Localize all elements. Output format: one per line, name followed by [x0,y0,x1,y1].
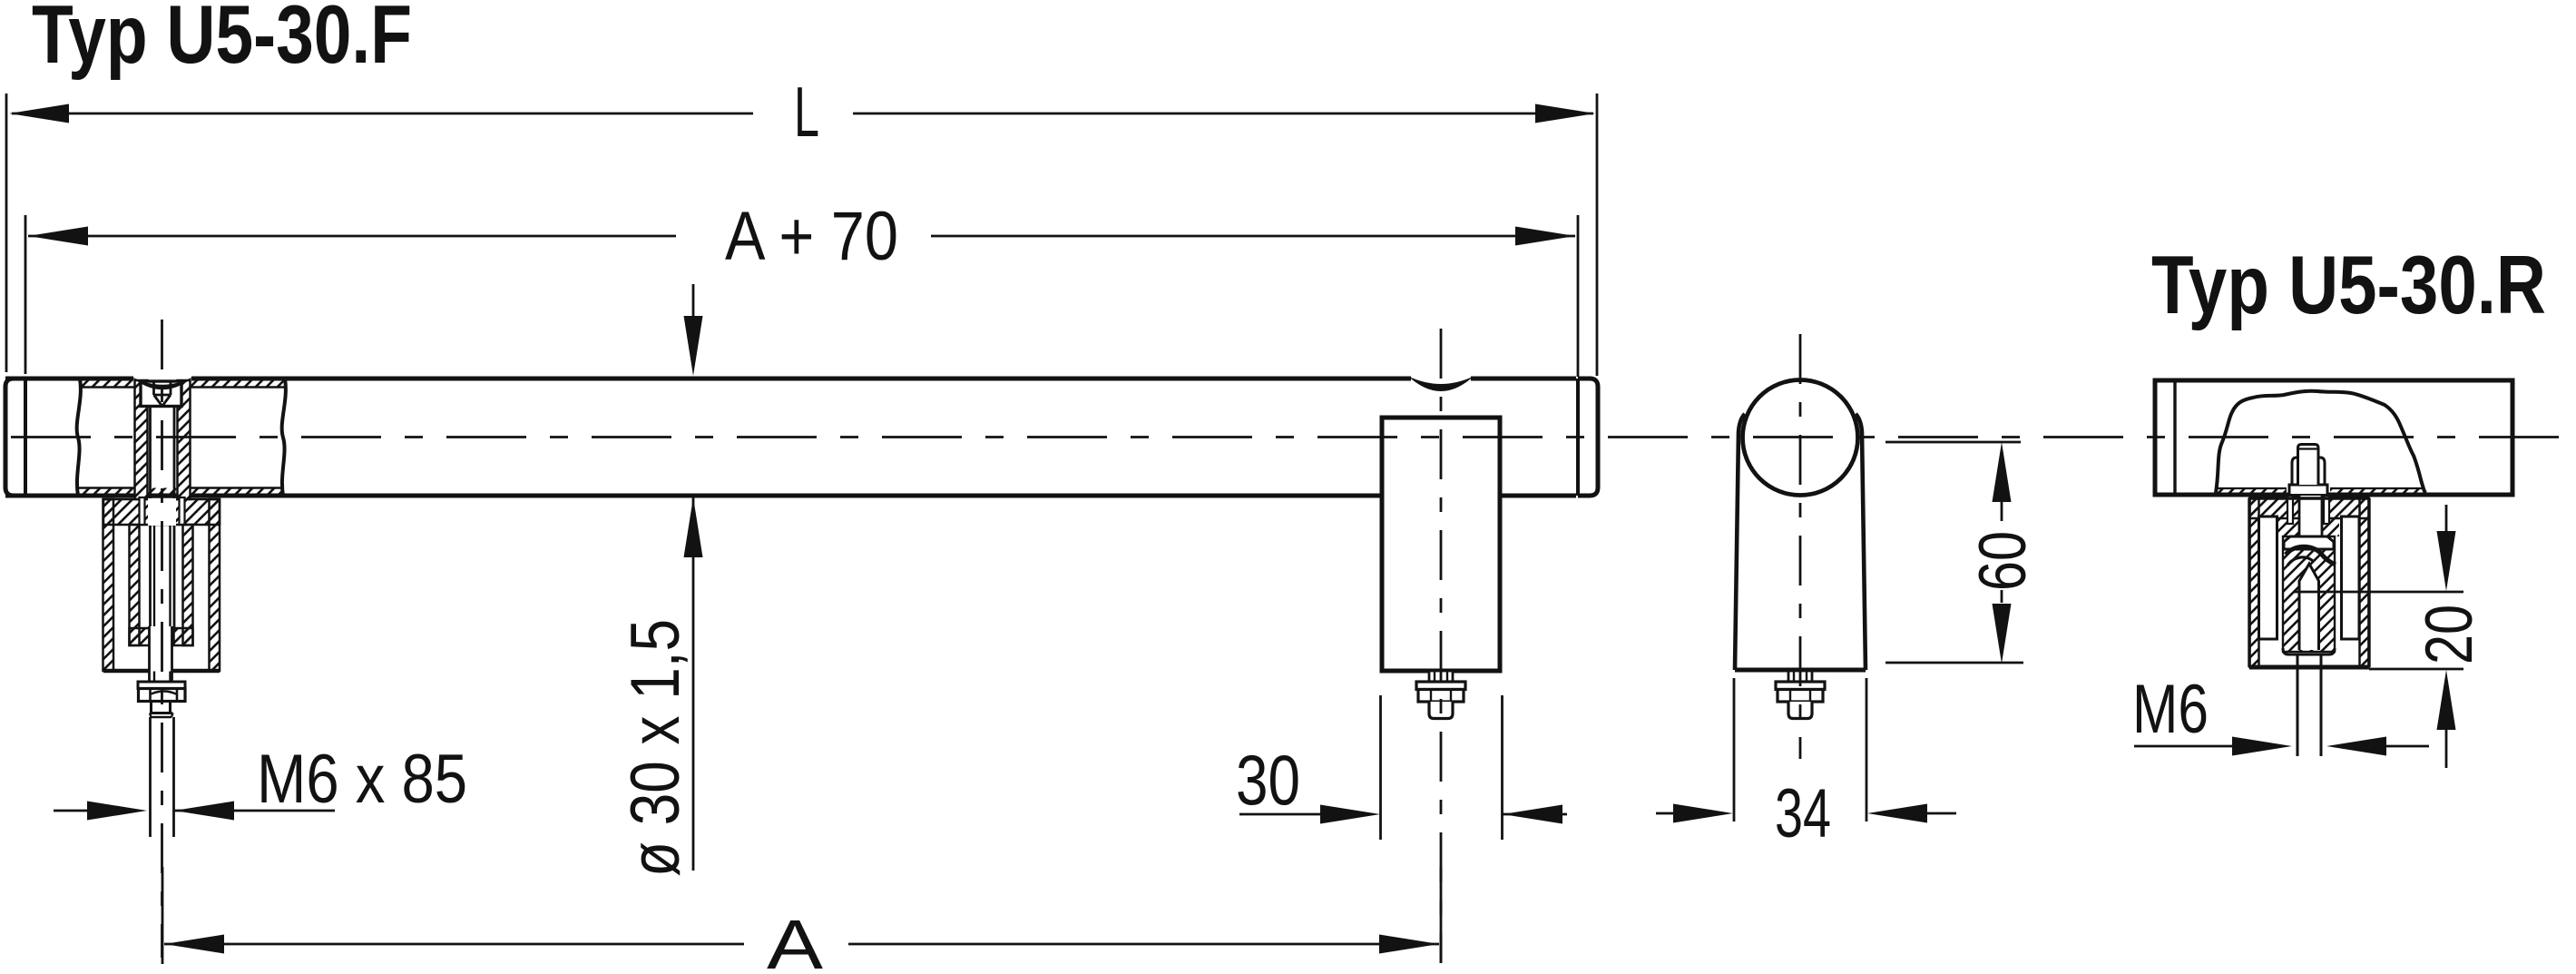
tube inner wall line top [79,386,284,389]
dim M6x85 lines [54,810,335,812]
arrow M6 left [2326,737,2386,756]
arrow dia30 up [684,497,703,557]
dim A+70 ext line right [1577,215,1580,377]
pin slot left [2287,496,2293,524]
arrow A+70 right [1515,227,1575,246]
dim A line [164,943,1439,946]
post outer wall right hatched [2360,498,2369,667]
dim dia30 leader top [692,284,695,320]
stud rod inside tube [2298,445,2319,486]
anchor sleeve left (side view) [2259,517,2277,639]
threaded stud point and rod inside bushing [2299,564,2319,650]
expander sleeve left hatched [130,525,140,645]
tube bottom edge [5,494,1576,498]
post side bottom edge [1735,668,1866,673]
arrow 60 up [1993,442,2012,502]
dim A+70 ext line left [24,215,27,374]
post side view left edge with saddle tip [1735,414,1745,670]
M6 stud below post [2297,654,2321,756]
R tube left end line [2173,380,2176,495]
dim M6 lines [2134,745,2429,748]
stud chamfer band [150,713,173,718]
tube wall hatch strip bottom [79,488,284,496]
bushing rounded bottom [2283,648,2335,654]
break crescent at screw [131,377,194,390]
screw channel white [148,498,176,526]
plug pin slot left [140,497,145,525]
post top band hatched [2249,498,2369,518]
screw shank lines [151,407,175,629]
svg-text:L: L [794,72,819,152]
tube wall hatch in section left [2218,488,2287,495]
arrow dia30 down [684,316,703,376]
arrow 30 right [1503,805,1562,824]
washer [138,682,185,689]
hex nut [139,689,186,702]
support post front view [1382,418,1500,671]
dim 20 line stubs [2445,505,2448,768]
screw M6 head [141,381,181,407]
dim 34 lines [1656,812,1956,815]
stud washer flange [2289,485,2327,496]
thread swirl [2286,546,2336,565]
plug pin slot right [180,497,185,525]
R tube body [2155,380,2512,495]
plug left hatched wall [135,380,148,499]
svg-text:ø 30 x 1,5: ø 30 x 1,5 [617,619,694,877]
tube inner wall line bottom [79,487,284,489]
centerline middle post [1440,329,1443,963]
fixing post cross-section (F) [103,497,220,837]
svg-text:A + 70: A + 70 [725,198,898,275]
dim 60 ext lines [1885,442,2023,663]
arrow 34 left [1673,804,1733,823]
arrow M6 right [2232,737,2292,756]
hex nut [1418,690,1464,703]
arrow A left [164,935,224,954]
stud end [1788,702,1812,719]
R fixing post cross-section [2249,496,2369,756]
pin slot right [2324,496,2329,524]
svg-text:M6: M6 [2132,671,2209,748]
dim L line [12,113,1593,115]
post outer wall left hatched [2250,498,2259,667]
arrow 34 right [1867,804,1927,823]
dim 20 ext lines [2295,592,2464,669]
arrow 60 down [1993,604,2012,664]
arrow M6x85 right [87,802,147,821]
post head band hatched [103,499,220,525]
threaded rod M6 [151,717,174,837]
arrow 20 up [2437,670,2456,730]
post outer wall right hatched [210,499,220,671]
bushing top zone hatched [2278,518,2339,536]
stud end below nut [152,702,171,713]
plug right hatched wall [178,380,191,499]
tube wall hatch in section right [2330,488,2424,495]
stud threaded collar [1429,671,1453,682]
bushing hex top [2284,536,2334,549]
arrow 30 left [1320,805,1380,824]
dim A+70 line [28,235,1575,238]
tube break wavy line left [77,379,81,496]
post outer outline [2249,498,2369,667]
svg-text:Typ U5-30.F: Typ U5-30.F [32,0,412,81]
bushing body hatched [2283,536,2335,652]
svg-text:M6 x 85: M6 x 85 [257,741,467,818]
tube right end cap [1578,379,1598,496]
tube cross-section circle [1743,380,1858,496]
expander sleeve bottom right hatched [174,628,193,645]
dim L ext line left [5,93,8,372]
post side view right edge with saddle tip [1856,414,1866,670]
tube left end cap [5,379,25,496]
dim 30 ext lines [1381,695,1503,840]
tube top edge [5,377,1576,381]
threaded rod through cup [149,626,172,681]
svg-text:20: 20 [2413,605,2486,664]
stud end [1429,702,1453,719]
stud thread lines [154,672,171,683]
arrow M6x85 left [174,802,234,821]
anchor sleeve right (side view) [2342,517,2360,639]
svg-text:Typ U5-30.R: Typ U5-30.R [2151,240,2546,331]
arrow A right [1379,935,1439,954]
arrow L right [1535,104,1595,123]
tube break wavy line right [282,379,286,496]
break crescent at post [1408,377,1474,392]
dim dia30 leader bottom [692,497,695,871]
post bottom edge [103,669,220,674]
main horizontal centerline [11,436,2576,438]
post bottom edge [2249,665,2369,670]
centerline left fixing [161,320,163,958]
dim A ext left [162,867,164,964]
svg-text:34: 34 [1775,775,1831,852]
washer [1776,682,1825,690]
arrow 20 down [2437,531,2456,591]
dim L ext line right [1596,93,1599,376]
expander sleeve right hatched [183,525,193,645]
washer [1416,682,1465,690]
dim 34 ext lines [1734,678,1866,822]
dim 60 line stubs [2001,502,2003,603]
threaded plug cross-section in tube [131,377,194,629]
arrow L left [9,104,69,123]
stud hex collar [2292,457,2325,486]
handle tube body [5,377,1598,497]
expander sleeve bottom left hatched [130,628,151,645]
post outer wall left hatched [103,499,114,671]
stud threaded collar [1788,671,1812,682]
centerline circle view [1799,334,1802,759]
svg-text:30: 30 [1236,740,1300,820]
stud rod channel white [2299,496,2322,536]
dim A ext right [1440,867,1443,963]
dim 30 lines [1239,813,1567,816]
broken-out section wavy boundary [2216,391,2425,493]
hex nut [1778,690,1823,703]
arrow A+70 left [28,227,88,246]
svg-text:60: 60 [1966,531,2040,591]
svg-text:A: A [767,906,824,974]
screw thread root lines [154,501,171,626]
tube wall hatch strip top [79,380,284,388]
